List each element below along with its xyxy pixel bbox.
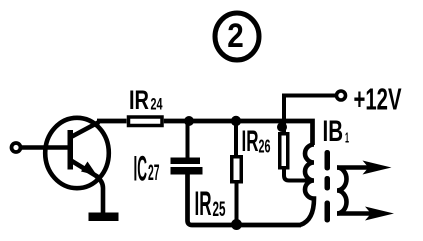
svg-text:24: 24 — [151, 96, 164, 114]
svg-text:IR: IR — [195, 185, 212, 223]
svg-text:IC: IC — [134, 150, 148, 189]
svg-text:IR: IR — [242, 125, 259, 158]
svg-text:+12V: +12V — [354, 83, 402, 117]
svg-text:26: 26 — [259, 137, 271, 157]
svg-text:2: 2 — [227, 17, 244, 55]
svg-text:IB: IB — [323, 115, 344, 148]
svg-text:25: 25 — [213, 197, 226, 221]
svg-text:1: 1 — [345, 130, 349, 147]
svg-text:IR: IR — [129, 85, 149, 115]
svg-text:27: 27 — [148, 160, 160, 185]
